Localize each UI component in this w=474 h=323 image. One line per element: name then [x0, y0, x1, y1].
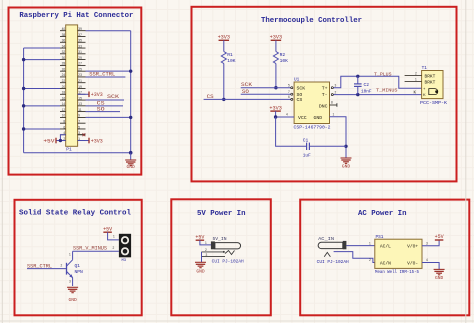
- ground: [195, 262, 206, 274]
- svg-text:AC/L: AC/L: [380, 243, 391, 249]
- svg-text:+3V3: +3V3: [91, 138, 103, 144]
- svg-text:2: 2: [113, 246, 115, 250]
- svg-text:19: 19: [78, 85, 82, 89]
- wire left pin row 13: [24, 105, 60, 107]
- svg-text:T+: T+: [322, 86, 328, 92]
- svg-text:M3: M3: [122, 259, 127, 263]
- svg-text:40: 40: [62, 27, 66, 31]
- svg-text:33: 33: [78, 44, 82, 48]
- svg-text:SCK: SCK: [107, 94, 119, 100]
- svg-text:5: 5: [288, 83, 290, 87]
- junction: [222, 98, 225, 101]
- svg-text:32: 32: [62, 50, 66, 54]
- wire SSR_CTRL to base: [27, 268, 67, 270]
- svg-text:13: 13: [78, 102, 82, 106]
- capacitor C1: [307, 143, 346, 150]
- op-amp U1 MAX31855 body: [294, 82, 329, 124]
- transistor Q1 NPN: [67, 251, 73, 286]
- svg-text:5: 5: [78, 125, 80, 129]
- power port +5V left row19: [43, 138, 65, 145]
- junction: [22, 127, 25, 130]
- svg-text:NPN: NPN: [75, 269, 84, 275]
- connector P1 right pin stubs and numbers: [78, 27, 86, 141]
- U1 T- pin wire to T_MINUS: [331, 90, 421, 95]
- T1 bracket pin stubs: [405, 71, 422, 81]
- wire left pin row 17: [24, 128, 60, 130]
- no-connect cross pin3: [78, 133, 86, 136]
- junction: [22, 58, 25, 61]
- svg-text:CUI PJ-102AH: CUI PJ-102AH: [317, 260, 349, 265]
- wire PS1 VO- to GND: [422, 258, 439, 269]
- svg-text:15: 15: [78, 96, 82, 100]
- svg-text:CUI PJ-102AH: CUI PJ-102AH: [212, 259, 244, 264]
- svg-text:DNC: DNC: [319, 104, 328, 110]
- sheet edge right: [465, 0, 467, 323]
- sheet edge bottom: [0, 320, 474, 322]
- U1 GND pin wire: [330, 113, 347, 159]
- svg-text:11: 11: [78, 108, 82, 112]
- svg-text:23: 23: [78, 73, 82, 77]
- svg-text:AC/N: AC/N: [380, 260, 391, 266]
- connector J2 barrel jack AC: [318, 241, 346, 257]
- svg-text:10nF: 10nF: [361, 89, 372, 94]
- svg-text:PCC-SMP-K: PCC-SMP-K: [420, 101, 447, 106]
- wire +5V to J tip: [200, 240, 211, 245]
- wire SCK: [241, 87, 291, 89]
- block border: Raspberry Pi Hat Connector: [9, 8, 142, 175]
- wire pin25 row: [86, 70, 131, 72]
- svg-text:VCC: VCC: [298, 115, 307, 121]
- U1 left pin circles and numbers: [288, 83, 293, 100]
- svg-text:29: 29: [78, 56, 82, 60]
- power port +3V3 right row11: [78, 91, 103, 98]
- connector J1 barrel jack: [202, 241, 241, 262]
- junction: [274, 86, 277, 89]
- svg-text:38: 38: [62, 33, 66, 37]
- svg-text:Solid State Relay Control: Solid State Relay Control: [19, 210, 132, 218]
- svg-text:T_PLUS: T_PLUS: [374, 71, 392, 77]
- sheet edge left: [1, 0, 3, 323]
- svg-text:C1: C1: [303, 137, 309, 143]
- junction: [129, 116, 132, 119]
- svg-text:34: 34: [62, 44, 66, 48]
- power port +5V: [195, 234, 204, 240]
- ground: [341, 158, 352, 170]
- U1 VCC pin wire: [276, 113, 295, 118]
- svg-text:GND: GND: [68, 297, 77, 303]
- power port +3V3: [269, 105, 281, 117]
- svg-text:4: 4: [286, 113, 288, 117]
- wire bottom GND run: [24, 152, 131, 154]
- wire GND right vertical: [130, 31, 132, 153]
- junction: [274, 115, 277, 118]
- wire PS1 VO+ to +5V: [422, 240, 439, 246]
- svg-text:T-: T-: [322, 92, 328, 98]
- junction: [129, 151, 133, 155]
- svg-text:SSR_CTRL: SSR_CTRL: [89, 72, 115, 78]
- svg-text:21: 21: [78, 79, 82, 83]
- wire SSR_CTRL stub: [86, 76, 126, 78]
- svg-text:12: 12: [62, 108, 66, 112]
- junction: [129, 69, 132, 72]
- svg-text:+5V: +5V: [43, 138, 54, 144]
- svg-text:BRKT: BRKT: [425, 74, 436, 80]
- svg-text:GND: GND: [314, 115, 323, 121]
- svg-text:SCK: SCK: [297, 86, 306, 92]
- svg-text:CS: CS: [297, 97, 303, 103]
- svg-text:37: 37: [78, 33, 82, 37]
- ground: [67, 287, 78, 303]
- svg-text:39: 39: [78, 27, 82, 31]
- svg-text:31: 31: [78, 50, 82, 54]
- svg-text:2: 2: [61, 264, 63, 268]
- svg-text:1: 1: [113, 235, 115, 239]
- svg-text:27: 27: [78, 62, 82, 66]
- svg-text:5V_IN: 5V_IN: [213, 236, 227, 242]
- connector M3 SSR header: [119, 234, 131, 257]
- wire +5V to M3 pin1: [108, 232, 119, 240]
- power port +3V3: [218, 35, 230, 52]
- junction: [356, 75, 359, 78]
- PS1 pin names: [380, 243, 419, 266]
- wire VCC down to C1: [276, 117, 307, 146]
- resistor R1: [221, 52, 226, 64]
- svg-text:8: 8: [331, 101, 333, 105]
- junction: [59, 139, 62, 142]
- block border: AC Power In: [300, 200, 469, 316]
- svg-text:28: 28: [62, 62, 66, 66]
- svg-text:Thermocouple Controller: Thermocouple Controller: [261, 17, 362, 25]
- svg-text:1: 1: [205, 241, 207, 245]
- svg-text:AC Power In: AC Power In: [358, 210, 407, 218]
- svg-text:+3V3: +3V3: [91, 92, 103, 98]
- svg-text:Mean Well IRM-15-5: Mean Well IRM-15-5: [375, 270, 419, 275]
- junction: [22, 104, 25, 107]
- wire CS: [204, 98, 291, 100]
- svg-text:GND: GND: [127, 164, 136, 170]
- svg-text:6: 6: [288, 95, 290, 99]
- svg-text:SSR_V_MINUS: SSR_V_MINUS: [73, 246, 107, 252]
- svg-text:30: 30: [62, 56, 66, 60]
- svg-text:Raspberry Pi Hat Connector: Raspberry Pi Hat Connector: [19, 12, 133, 20]
- wire left pin row 10: [24, 88, 60, 90]
- svg-text:PS1: PS1: [376, 235, 384, 240]
- power module PS1 body: [375, 239, 422, 268]
- T1 thermocouple glyph: [423, 86, 438, 97]
- wire pin9 row: [86, 116, 131, 118]
- svg-text:4: 4: [426, 258, 428, 262]
- svg-text:35: 35: [78, 39, 82, 43]
- svg-text:1: 1: [369, 241, 371, 245]
- svg-text:T_MINUS: T_MINUS: [376, 88, 398, 94]
- block border: Thermocouple Controller: [192, 7, 457, 182]
- svg-text:1uF: 1uF: [303, 154, 311, 159]
- wire pin39 row: [86, 30, 131, 32]
- junction: [344, 145, 347, 148]
- svg-text:Q1: Q1: [75, 263, 81, 269]
- wire SO stub: [86, 111, 121, 113]
- capacitor C2: [354, 76, 362, 94]
- svg-text:T1: T1: [422, 66, 428, 71]
- svg-text:P1: P1: [66, 146, 72, 152]
- U1 T+ pin wire to T_PLUS: [331, 76, 421, 88]
- svg-text:25: 25: [78, 67, 82, 71]
- ground symbol GND bottom: [130, 153, 132, 160]
- wire J2 tip to PS1 AC/L: [346, 241, 374, 245]
- svg-text:9: 9: [78, 114, 80, 118]
- svg-text:3: 3: [69, 280, 71, 284]
- ground: [125, 160, 136, 170]
- connector P1 left pin stubs and numbers: [60, 27, 66, 141]
- wire left pin row 5: [24, 59, 60, 61]
- resistor R2: [273, 52, 278, 64]
- svg-text:1: 1: [69, 253, 71, 257]
- wire SO: [241, 93, 291, 95]
- connector T1 body: [422, 71, 443, 99]
- svg-text:14: 14: [62, 102, 66, 106]
- wire CS stub: [86, 105, 124, 107]
- svg-text:7: 7: [288, 90, 290, 94]
- power port +3V3: [270, 35, 282, 52]
- junction: [22, 87, 25, 90]
- svg-text:36: 36: [62, 39, 66, 43]
- wire SSR_V_MINUS: [73, 250, 119, 252]
- svg-text:GND: GND: [435, 275, 444, 281]
- svg-text:V/O+: V/O+: [407, 243, 418, 249]
- wire 5V hook pin4: [60, 135, 65, 141]
- connector P1 body: [66, 25, 78, 146]
- wire J2 switch to PS1 AC/N: [334, 252, 375, 263]
- svg-text:BRKT: BRKT: [425, 80, 436, 86]
- svg-text:2: 2: [335, 90, 337, 94]
- junction: [356, 93, 359, 96]
- svg-text:GND: GND: [196, 269, 205, 275]
- wire R2 to SCK net: [275, 64, 277, 88]
- svg-text:10: 10: [62, 114, 66, 118]
- power port +3V3 right row19: [78, 138, 103, 145]
- svg-text:5V Power In: 5V Power In: [197, 210, 246, 218]
- svg-text:3: 3: [206, 253, 208, 257]
- svg-text:CSP-1467790-2: CSP-1467790-2: [294, 127, 332, 131]
- svg-text:7: 7: [78, 119, 80, 123]
- svg-text:2: 2: [205, 248, 207, 252]
- svg-text:AC_IN: AC_IN: [318, 236, 334, 242]
- svg-text:2: 2: [415, 71, 417, 75]
- wire SCK stub: [86, 99, 125, 101]
- svg-text:1: 1: [415, 77, 417, 81]
- svg-text:10K: 10K: [227, 58, 236, 64]
- svg-text:R2: R2: [280, 52, 286, 58]
- U1 DNC no-connect stub: [330, 101, 337, 107]
- T1 pin names BRKT BRKT: [425, 74, 436, 86]
- svg-text:3: 3: [335, 83, 337, 87]
- svg-text:10K: 10K: [280, 58, 289, 64]
- svg-text:C2: C2: [364, 82, 370, 88]
- svg-text:22: 22: [62, 79, 66, 83]
- wire R1 to CS net: [223, 64, 225, 100]
- svg-text:K: K: [423, 92, 426, 97]
- svg-text:R1: R1: [227, 52, 233, 58]
- power port +5V: [435, 234, 444, 240]
- svg-text:16: 16: [62, 96, 66, 100]
- svg-text:GND: GND: [342, 164, 351, 170]
- svg-text:8: 8: [63, 119, 65, 123]
- svg-text:1: 1: [333, 113, 335, 117]
- block border: 5V Power In: [171, 199, 270, 315]
- wire left pin row 3: [24, 47, 60, 49]
- U1 pin names: [297, 86, 328, 122]
- svg-text:3: 3: [426, 242, 428, 246]
- wire GND bus left vertical: [23, 48, 25, 153]
- power port +5V: [103, 226, 112, 232]
- block border: Solid State Relay Control: [15, 200, 142, 315]
- ground: [434, 269, 445, 280]
- svg-text:18: 18: [62, 91, 66, 95]
- svg-text:U1: U1: [294, 78, 300, 83]
- svg-text:20: 20: [62, 85, 66, 89]
- svg-text:V/O-: V/O-: [407, 260, 418, 266]
- svg-text:26: 26: [62, 67, 66, 71]
- svg-text:24: 24: [62, 73, 66, 77]
- svg-text:2: 2: [369, 258, 371, 262]
- svg-text:6: 6: [63, 125, 65, 129]
